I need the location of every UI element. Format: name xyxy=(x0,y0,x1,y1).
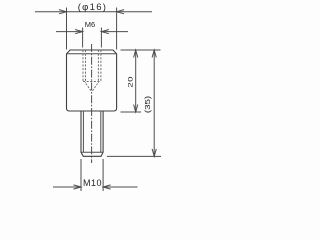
body chamfer line xyxy=(67,53,117,55)
stud outline xyxy=(81,111,103,156)
M10 right arrow xyxy=(103,185,111,189)
35 bottom arrow xyxy=(152,149,156,157)
stud chamfer line xyxy=(81,151,103,153)
dimension M10 left line xyxy=(53,186,81,188)
M6 right arrow xyxy=(101,30,109,34)
stud thread minor line right xyxy=(100,111,102,152)
20 top arrow xyxy=(134,50,138,58)
M6 right extension line xyxy=(100,28,102,48)
stud thread minor line left xyxy=(82,111,84,152)
20 bottom arrow xyxy=(134,105,138,113)
phi16 left extension line xyxy=(66,8,68,50)
phi16 right arrow xyxy=(117,10,125,14)
dimension M6 right line xyxy=(101,31,128,33)
20 and 35 shared top extension line xyxy=(121,49,161,51)
35 bottom extension line xyxy=(107,155,161,157)
dimension 20 line xyxy=(135,50,137,112)
phi16 right extension line xyxy=(116,8,118,50)
svg-text:(φ16): (φ16) xyxy=(78,2,108,13)
dimension M6 left line xyxy=(56,31,83,33)
drill point hidden line right xyxy=(92,84,98,92)
M6 left arrow xyxy=(75,30,83,34)
centerline xyxy=(91,44,93,163)
tapped hole minor diameter hidden line left xyxy=(85,50,87,83)
M10 right extension line xyxy=(102,159,104,191)
svg-text:M6: M6 xyxy=(85,20,95,29)
svg-text:M10: M10 xyxy=(83,178,102,188)
tapped hole major diameter hidden line right xyxy=(100,50,102,82)
tapped hole minor diameter hidden line right xyxy=(97,50,99,83)
20 bottom extension line xyxy=(121,111,142,113)
dimension M10 right line xyxy=(103,186,137,188)
svg-text:20: 20 xyxy=(127,76,134,88)
M10 left extension line xyxy=(80,159,82,191)
tapped hole major diameter hidden line left xyxy=(82,50,84,82)
body outline xyxy=(67,50,117,111)
M6 left extension line xyxy=(82,28,84,48)
dimension 35 line xyxy=(153,50,155,156)
phi16 left arrow xyxy=(59,10,67,14)
35 top arrow xyxy=(152,50,156,58)
svg-text:(35): (35) xyxy=(143,96,152,113)
M10 left arrow xyxy=(74,185,82,189)
drill point hidden line left xyxy=(86,84,92,92)
thread end hidden line xyxy=(83,81,101,83)
dimension phi16 line xyxy=(35,11,152,13)
